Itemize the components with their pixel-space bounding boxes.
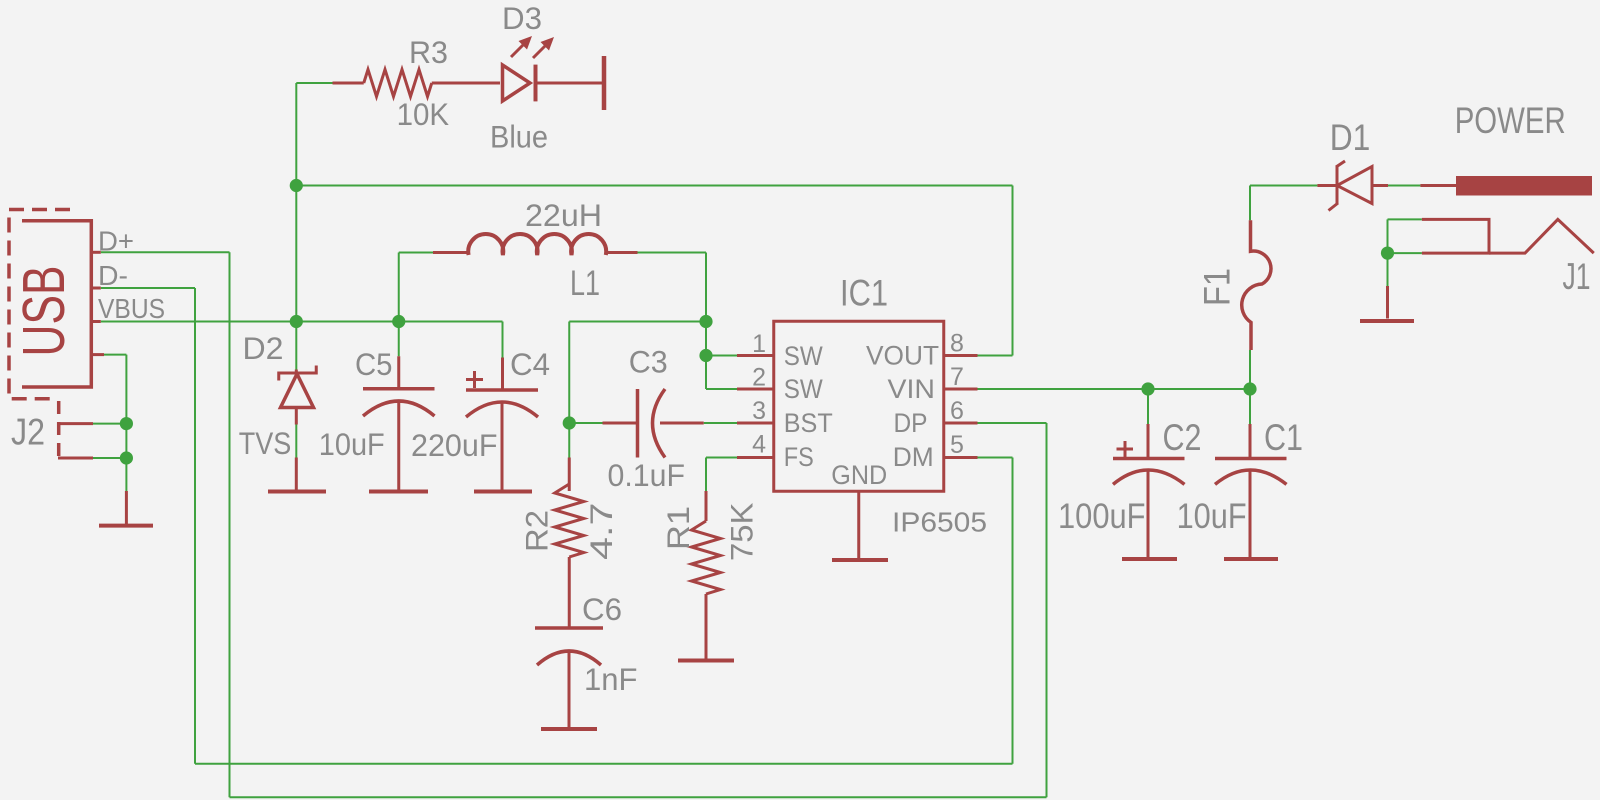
svg-text:6: 6 — [950, 397, 964, 425]
svg-text:POWER: POWER — [1455, 100, 1566, 141]
svg-text:D3: D3 — [502, 0, 542, 36]
svg-text:7: 7 — [950, 363, 964, 391]
svg-text:2: 2 — [752, 364, 766, 392]
svg-text:J1: J1 — [1563, 256, 1591, 297]
svg-text:C1: C1 — [1264, 417, 1303, 458]
svg-text:D1: D1 — [1330, 117, 1371, 158]
svg-text:GND: GND — [831, 460, 887, 490]
svg-text:100uF: 100uF — [1058, 497, 1146, 536]
svg-text:C2: C2 — [1163, 417, 1202, 458]
svg-text:VIN: VIN — [888, 374, 936, 404]
svg-text:J2: J2 — [11, 412, 45, 453]
svg-text:3: 3 — [752, 397, 766, 425]
svg-text:DP: DP — [894, 408, 928, 438]
svg-text:75K: 75K — [724, 503, 760, 562]
svg-text:0.1uF: 0.1uF — [608, 457, 686, 493]
svg-text:R1: R1 — [660, 506, 696, 550]
svg-text:C3: C3 — [629, 344, 668, 380]
svg-text:TVS: TVS — [239, 425, 292, 461]
svg-text:C5: C5 — [355, 346, 393, 382]
svg-text:BST: BST — [784, 408, 833, 438]
svg-text:USB: USB — [11, 266, 77, 357]
svg-text:1: 1 — [752, 330, 766, 358]
svg-text:VBUS: VBUS — [98, 293, 165, 324]
svg-text:D2: D2 — [243, 330, 284, 366]
svg-text:5: 5 — [950, 431, 964, 459]
svg-text:F1: F1 — [1197, 268, 1238, 306]
svg-text:4: 4 — [752, 431, 766, 459]
svg-text:IC1: IC1 — [840, 273, 888, 314]
svg-text:SW: SW — [784, 341, 823, 371]
svg-text:D+: D+ — [98, 226, 134, 257]
svg-text:C4: C4 — [510, 346, 550, 382]
svg-text:R3: R3 — [409, 34, 448, 70]
svg-text:1nF: 1nF — [584, 661, 638, 697]
svg-text:SW: SW — [784, 374, 823, 404]
svg-text:VOUT: VOUT — [866, 341, 939, 371]
svg-text:D-: D- — [98, 260, 128, 291]
svg-text:Blue: Blue — [490, 119, 548, 155]
svg-text:L1: L1 — [570, 264, 600, 303]
svg-text:IP6505: IP6505 — [892, 507, 987, 538]
svg-text:10K: 10K — [397, 96, 450, 132]
svg-text:DM: DM — [893, 442, 934, 472]
svg-text:8: 8 — [950, 330, 964, 358]
svg-text:22uH: 22uH — [525, 197, 602, 233]
svg-text:10uF: 10uF — [1177, 497, 1247, 536]
svg-text:FS: FS — [784, 442, 814, 472]
svg-text:R2: R2 — [519, 510, 555, 552]
svg-text:C6: C6 — [582, 591, 622, 627]
svg-text:220uF: 220uF — [411, 427, 498, 463]
svg-text:4.7: 4.7 — [583, 503, 619, 561]
svg-text:10uF: 10uF — [319, 426, 385, 462]
